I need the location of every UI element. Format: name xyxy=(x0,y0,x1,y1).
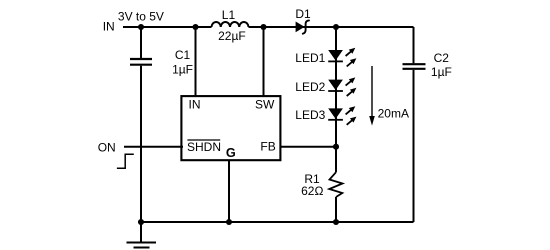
wire C2 bottom down to rail xyxy=(413,70,415,222)
wire G pin to rail xyxy=(228,160,230,222)
capacitor C2 xyxy=(403,51,452,79)
node C1 top junction xyxy=(192,24,198,30)
node G rail junction xyxy=(226,219,232,225)
capacitor input (C1) xyxy=(130,59,152,65)
wire LED chain vertical xyxy=(335,27,337,147)
wire R1 bottom xyxy=(335,197,337,222)
svg-text:G: G xyxy=(226,146,236,160)
node FB junction xyxy=(333,144,339,150)
resistor R1 xyxy=(301,172,342,198)
wire FB junction down to R1 xyxy=(335,147,337,173)
svg-text:SW: SW xyxy=(255,98,275,112)
svg-text:3V to 5V: 3V to 5V xyxy=(118,10,164,24)
LED3 xyxy=(295,106,356,125)
svg-text:FB: FB xyxy=(260,140,275,154)
node SW top junction xyxy=(260,24,266,30)
svg-text:D1: D1 xyxy=(295,7,311,21)
svg-text:IN: IN xyxy=(189,98,201,112)
wire to SW pin xyxy=(263,27,265,98)
current arrow 20mA xyxy=(369,66,409,126)
wire top rail right segment xyxy=(249,26,414,28)
wire input cap lower to ground rail xyxy=(140,66,142,222)
svg-text:ON: ON xyxy=(98,141,116,155)
wire bottom rail xyxy=(141,221,414,223)
svg-text:C2: C2 xyxy=(434,51,450,65)
LED1 xyxy=(295,48,356,67)
svg-text:SHDN: SHDN xyxy=(187,140,221,154)
svg-text:C1: C1 xyxy=(175,48,191,62)
svg-text:LED1: LED1 xyxy=(295,51,325,65)
svg-text:1µF: 1µF xyxy=(172,62,193,76)
node D1 cathode junction xyxy=(333,24,339,30)
step waveform symbol xyxy=(117,154,134,168)
diode D1 xyxy=(295,7,311,34)
wire FB xyxy=(278,146,336,148)
inductor L1 xyxy=(212,8,249,43)
node input junction xyxy=(138,24,144,30)
svg-text:IN: IN xyxy=(103,20,115,34)
svg-text:62Ω: 62Ω xyxy=(301,184,323,198)
svg-text:LED2: LED2 xyxy=(295,80,325,94)
svg-text:22µF: 22µF xyxy=(218,29,246,43)
LED2 xyxy=(295,77,356,96)
node R1 bottom junction xyxy=(333,219,339,225)
svg-text:L1: L1 xyxy=(222,8,236,22)
wire top right corner down to C2 xyxy=(413,27,415,63)
svg-text:20mA: 20mA xyxy=(378,107,409,121)
ground xyxy=(127,222,157,248)
node ground junction xyxy=(138,219,144,225)
IC regulator (boost converter) xyxy=(181,96,280,160)
wire to IN pin xyxy=(195,27,197,98)
wire input cap upper xyxy=(140,27,142,58)
svg-text:1µF: 1µF xyxy=(431,65,452,79)
wire ON to SHDN xyxy=(124,146,183,148)
svg-text:LED3: LED3 xyxy=(295,108,325,122)
wire top rail left segment xyxy=(123,26,212,28)
